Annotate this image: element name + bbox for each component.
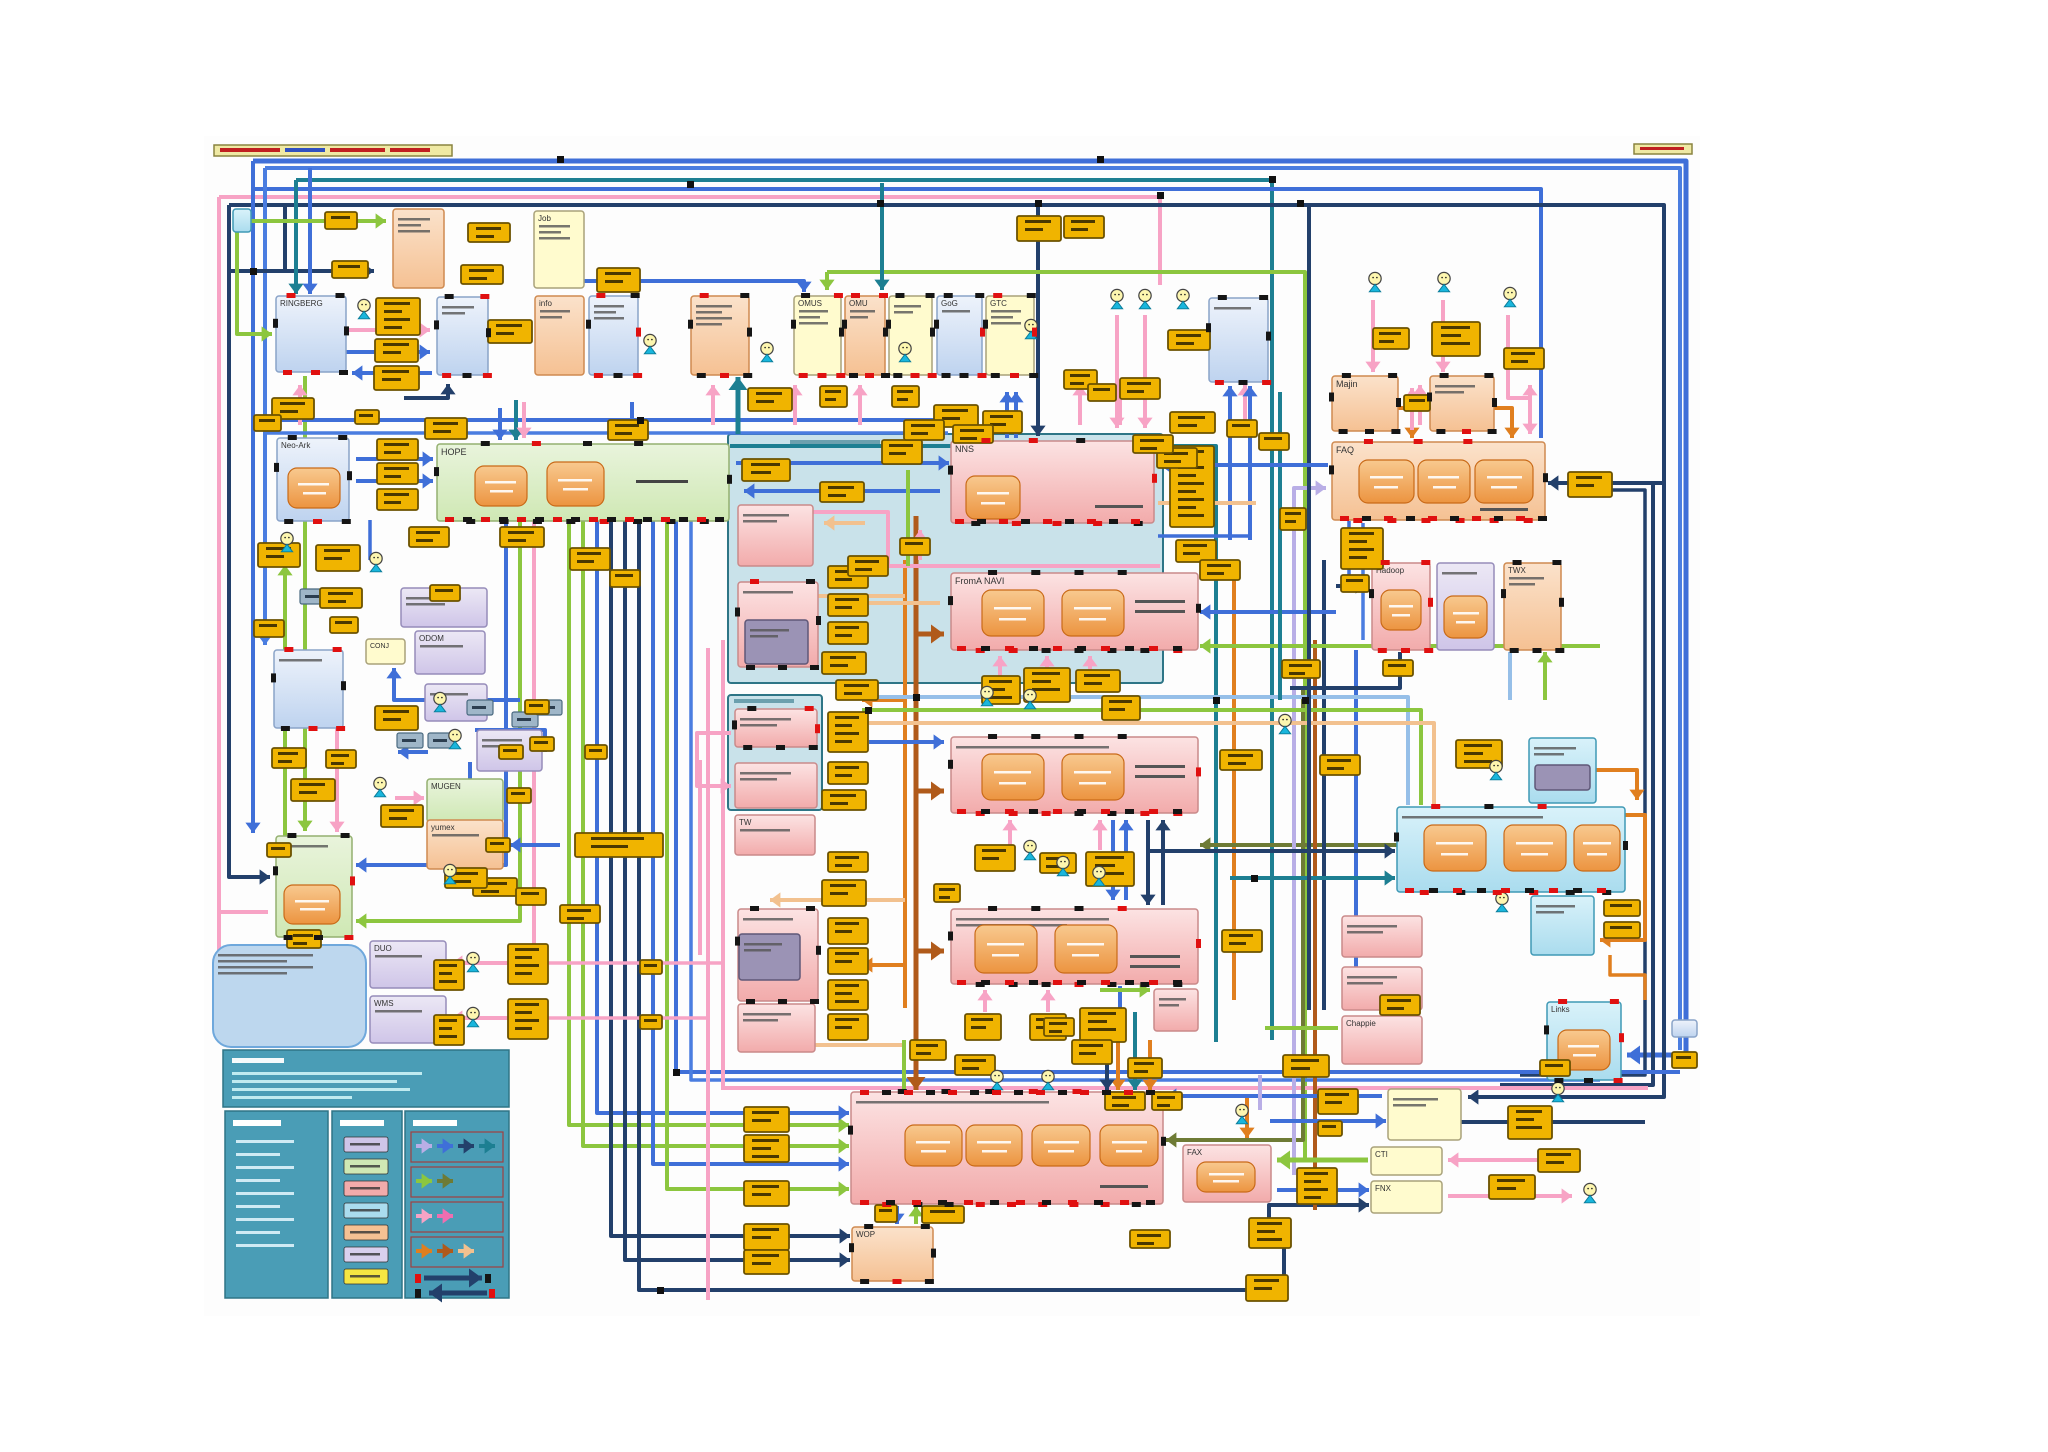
wire pink CTI: [1448, 1158, 1575, 1162]
wire green left source: [250, 219, 386, 223]
label box 1030,1014: [1030, 1014, 1066, 1040]
wire pink person 1117: [1115, 315, 1119, 428]
svg-text:FAX: FAX: [1187, 1148, 1203, 1157]
wire peach cross: [862, 723, 1434, 805]
connector box 467,700: [467, 700, 493, 715]
label box 1318,1089: [1318, 1089, 1358, 1114]
label box 955,1055: [955, 1055, 995, 1075]
wire pink stub 713: [711, 385, 715, 425]
svg-text:Majin: Majin: [1336, 379, 1358, 389]
wire navy inner frame: [1500, 483, 1653, 1085]
label box 1170,412: [1170, 412, 1215, 433]
svg-text:GoG: GoG: [941, 299, 958, 308]
wire orange E2: [1232, 560, 1236, 1000]
wire blue left v2: [263, 168, 267, 645]
wire blue left v4: [308, 168, 312, 294]
label box 982,676: [982, 676, 1020, 704]
connector box 512,712: [512, 712, 538, 727]
box kashichi: [393, 209, 444, 288]
wire pink stub2 985: [983, 990, 987, 1012]
label box 374,366: [374, 366, 419, 390]
box akamai: [889, 296, 932, 375]
label box 975,845: [975, 845, 1015, 871]
box MUGEN: [427, 779, 503, 822]
label box 1040,853: [1040, 853, 1076, 873]
label box 326,750: [326, 750, 356, 768]
label box 1222,930: [1222, 930, 1262, 952]
legend note box: [223, 1050, 509, 1107]
wire peach left h3: [770, 898, 905, 902]
box kikaku preview: [735, 763, 817, 808]
label box 267,843: [267, 843, 291, 857]
box OMUS: [794, 296, 841, 375]
box rikunavi: [1397, 807, 1625, 892]
label box 434,1015: [434, 1015, 464, 1045]
wire navy FAQ arrow: [1548, 481, 1664, 485]
wire navy branch NNS: [1036, 205, 1040, 436]
label box 316,545: [316, 545, 360, 571]
label box 1320,755: [1320, 755, 1360, 775]
wire orange client: [1494, 408, 1512, 438]
person 650,350: [644, 334, 656, 353]
wire navy FNX: [1269, 1205, 1369, 1225]
label box 1540,1060: [1540, 1060, 1570, 1076]
person 1444,288: [1438, 272, 1450, 291]
wire blue hopeL1: [356, 457, 433, 461]
person 767,358: [761, 342, 773, 361]
label box 910,1040: [910, 1040, 946, 1060]
wire peach left h4: [770, 1043, 905, 1047]
wire navy oubo: [1105, 1030, 1109, 1090]
label box 1383,660: [1383, 660, 1413, 676]
box hanteki API: [1342, 967, 1422, 1010]
person 1375,288: [1369, 272, 1381, 291]
wire pink mid v2: [721, 640, 725, 1088]
wire navy cross2: [1161, 820, 1165, 905]
label box 330,617: [330, 617, 358, 633]
label box 820,482: [820, 482, 864, 502]
person 1145,305: [1139, 289, 1151, 308]
label box 254,415: [254, 415, 281, 431]
label box 1102,696: [1102, 696, 1140, 720]
label box 1220,750: [1220, 750, 1262, 770]
wire orange center: [903, 560, 907, 1008]
box riku kigyou: [1531, 896, 1594, 955]
svg-text:HOPE: HOPE: [441, 447, 467, 457]
wire teal left v: [294, 180, 298, 294]
wire pink mid h: [721, 1086, 1648, 1090]
svg-text:NNS: NNS: [955, 444, 974, 454]
label box 570,548: [570, 548, 610, 570]
wire green cross: [862, 710, 1421, 805]
wire green mo in: [356, 521, 520, 921]
box keisaiDB: [691, 296, 749, 375]
wire navy hadoop2: [1290, 652, 1400, 688]
label box 1133,435: [1133, 435, 1173, 453]
wire pink stub2 920: [918, 530, 922, 560]
person 1031,335: [1025, 319, 1037, 338]
label box 1604,900: [1604, 900, 1640, 916]
person 1510,303: [1504, 287, 1516, 306]
label box 445,868: [445, 868, 487, 888]
box TWX: [1504, 563, 1561, 650]
wire blue rikuopu: [1166, 1094, 1382, 1098]
label box 486,838: [486, 838, 510, 852]
wire blue rk2: [352, 371, 432, 375]
wire peach left h1: [760, 594, 905, 598]
wire green mid v2: [583, 521, 849, 1146]
wire orange riku loop: [1600, 815, 1645, 940]
box gf source: [233, 209, 251, 232]
wire pink stub 1120: [1118, 385, 1122, 425]
wire pink rk: [346, 328, 430, 332]
wire green oubo: [902, 1040, 906, 1090]
label box 744,1135: [744, 1135, 789, 1162]
svg-text:TWX: TWX: [1508, 566, 1526, 575]
box CONJ: [366, 639, 405, 664]
wire teal rikunavi: [1230, 876, 1395, 880]
box townwork: [951, 737, 1198, 813]
label box 1080,1008: [1080, 1008, 1126, 1042]
box RINGBERG: [276, 296, 346, 372]
wire navy rikuopu3: [1461, 1120, 1645, 1124]
svg-text:info: info: [539, 299, 552, 308]
box unyou inner: [745, 620, 808, 664]
label box 1489,1175: [1489, 1175, 1535, 1199]
svg-text:FNX: FNX: [1375, 1184, 1392, 1193]
wire teal E1b: [1278, 392, 1282, 700]
wire brown arrow hata: [916, 949, 944, 954]
label box 828,566: [828, 566, 868, 588]
box FAQ: [1332, 442, 1545, 520]
label box 640,1015: [640, 1015, 662, 1029]
wire pink stub 1350: [1348, 385, 1352, 425]
person 905,358: [899, 342, 911, 361]
label box 828,980: [828, 980, 868, 1010]
wire orange riku loop2: [1610, 955, 1645, 1000]
label box 953,425: [953, 425, 993, 443]
wire blue hopetop2: [630, 402, 634, 438]
svg-text:WMS: WMS: [374, 999, 394, 1008]
label box 1508,1106: [1508, 1106, 1552, 1139]
title bar top-left: [214, 145, 452, 156]
label box 983,411: [983, 411, 1022, 433]
svg-text:TW: TW: [739, 818, 752, 827]
person 1183,305: [1177, 289, 1189, 308]
label box 828,622: [828, 622, 868, 644]
svg-text:WOP: WOP: [856, 1230, 875, 1239]
person 380,793: [374, 777, 386, 796]
wire blue th1: [1111, 820, 1115, 900]
label box 1157,448: [1157, 448, 1197, 468]
connector box 536,700: [536, 700, 562, 715]
wire pink mid v1: [706, 648, 710, 1300]
label box 822,790: [822, 790, 866, 810]
wire blue cross3: [1200, 610, 1336, 614]
wire green nns v: [906, 470, 910, 566]
label box 1076,670: [1076, 670, 1120, 692]
label box 610,570: [610, 570, 640, 587]
wire orange oubo1: [1116, 1040, 1120, 1090]
label box 1152,1092: [1152, 1092, 1182, 1110]
label box 822,880: [822, 880, 866, 906]
label box 1404,395: [1404, 395, 1430, 411]
label box 836,680: [836, 680, 878, 700]
label box 828,918: [828, 918, 868, 944]
label box 1341,528: [1341, 528, 1383, 569]
box erena: [589, 296, 638, 375]
svg-text:MUGEN: MUGEN: [431, 782, 461, 791]
wire teal oubo: [1133, 1012, 1137, 1090]
legend rule box: [225, 1111, 328, 1298]
svg-text:FAQ: FAQ: [1336, 445, 1354, 455]
box CTI: [1371, 1147, 1442, 1175]
label box 608,420: [608, 420, 648, 440]
label box 828,948: [828, 948, 868, 974]
wire green CTI: [1277, 1158, 1368, 1163]
box client kanri: [1430, 376, 1494, 431]
label box 1064,216: [1064, 216, 1104, 238]
wire navy mid v6: [639, 521, 1284, 1290]
label box 377,463: [377, 463, 418, 484]
box rikuH inner: [1535, 765, 1590, 790]
svg-text:CTI: CTI: [1375, 1150, 1388, 1159]
wire teal DB down: [736, 377, 741, 434]
wire navy cross1: [1146, 820, 1150, 905]
wire blue nnsr2: [1158, 534, 1250, 538]
person 1242,1120: [1236, 1104, 1248, 1123]
wire navy rikunavi: [1150, 849, 1395, 853]
wire blue mid v7: [653, 521, 849, 1164]
label box 1283,1055: [1283, 1055, 1329, 1077]
person 1030,705: [1024, 689, 1036, 708]
box jobeee: [534, 211, 584, 288]
box FromA NAVI: [951, 573, 1198, 650]
wire blue utsubo1: [1228, 386, 1232, 540]
wire orange oubo2: [1148, 1040, 1152, 1090]
label box 882,440: [882, 440, 922, 464]
wire orange majin: [1398, 408, 1412, 438]
wire navy hadoop: [1336, 584, 1366, 588]
wire pink stub 1530: [1528, 385, 1532, 425]
wire pink duo2: [548, 961, 723, 965]
wire orange arrow R: [862, 698, 905, 702]
wire blue mid v3: [597, 521, 849, 1113]
wire pink duo: [452, 961, 508, 965]
wire navy mid v5: [625, 521, 850, 1260]
label box 1538,1149: [1538, 1149, 1580, 1172]
wire blue faqleft: [1160, 463, 1328, 467]
label box 1176,540: [1176, 540, 1216, 562]
svg-text:DUO: DUO: [374, 944, 392, 953]
wire navy row271: [231, 269, 374, 273]
box rikuH kanri: [1529, 738, 1596, 803]
wire pink FNX: [1448, 1194, 1572, 1198]
wire green mid v8: [667, 521, 849, 1189]
wire olive E3: [1166, 690, 1303, 1140]
label box 934,405: [934, 405, 978, 427]
label box 1318,1121: [1318, 1121, 1342, 1136]
label box 473,878: [473, 878, 517, 896]
wire pink stub 300: [298, 385, 302, 425]
wire pink stub2 1047: [1045, 656, 1049, 670]
label box 258,543: [258, 543, 300, 567]
wire navy mid v4: [611, 521, 850, 1236]
label box 560,905: [560, 905, 600, 923]
wire green mid v1: [569, 521, 849, 1125]
wire pink wms2: [548, 1016, 708, 1020]
box chappie: [1342, 1016, 1422, 1064]
box udopon: [1437, 563, 1494, 650]
person 1285,730: [1279, 714, 1291, 733]
wire green arrow OMUS: [825, 272, 829, 290]
wire orange arrow R2: [862, 963, 905, 967]
label box 1168,330: [1168, 330, 1210, 350]
wire blue E7: [1354, 650, 1358, 1005]
box API speech: [213, 945, 366, 1047]
label box 320,588: [320, 588, 362, 608]
wire blue townwork: [869, 740, 944, 744]
box hata API: [1154, 989, 1198, 1031]
person 1117,305: [1111, 289, 1123, 308]
label box 461,265: [461, 265, 503, 284]
connector box 428,733: [428, 733, 454, 748]
label box 332,261: [332, 261, 368, 278]
label box 744,1250: [744, 1250, 789, 1274]
wire pink stub 1245: [1243, 385, 1247, 425]
label box 272,398: [272, 398, 314, 419]
box gtc: [986, 296, 1034, 375]
label box 1130,1230: [1130, 1230, 1170, 1248]
label box 828,762: [828, 762, 868, 784]
box ODOM: [415, 631, 485, 674]
wire blue mid v9: [676, 521, 1680, 1072]
person 1558,1098: [1552, 1082, 1564, 1101]
wire blue nns out: [744, 489, 940, 493]
wire blue mid v10: [691, 521, 1600, 1080]
wire blue twx: [1508, 652, 1512, 700]
label box 1504,348: [1504, 348, 1544, 369]
label box 381,805: [381, 805, 423, 827]
wire pink hopetop: [522, 402, 526, 438]
wire green twx: [1543, 652, 1547, 700]
wire blue gtc up2: [1014, 392, 1018, 438]
box DUO: [370, 941, 446, 988]
label box 875,1205: [875, 1205, 897, 1222]
box kyatarin: [437, 297, 488, 375]
label box 1200,560: [1200, 560, 1240, 580]
label box 425,418: [425, 418, 467, 439]
wire orange rikuH: [1596, 770, 1637, 800]
box WOP: [852, 1227, 933, 1281]
wire pink stub2 1090: [1088, 656, 1092, 672]
box FNX: [1371, 1181, 1442, 1213]
wire pink top: [219, 197, 1160, 285]
wire pink left: [217, 197, 221, 1035]
wire blue left v1: [251, 161, 255, 833]
label box 355,410: [355, 410, 379, 424]
label box 530,737: [530, 737, 554, 751]
wire brown E5: [1313, 640, 1317, 1210]
box utsubo: [1209, 298, 1268, 382]
wire pink stub 1080: [1078, 385, 1082, 425]
box unyou kanri: [738, 582, 818, 667]
wire blue utsubo2: [1248, 386, 1252, 540]
wire brown arrow FromA: [916, 632, 944, 637]
box oubo: [851, 1092, 1163, 1204]
wire lblue cross: [862, 697, 1408, 805]
legend color box: [332, 1111, 402, 1298]
wire blue E8: [1361, 523, 1365, 640]
box koukoutei: [425, 684, 487, 721]
box HOPE client: [401, 588, 487, 627]
person 440,708: [434, 692, 446, 711]
person 473,1023: [467, 1007, 479, 1026]
label box 640,960: [640, 960, 662, 974]
wire orange fax: [1245, 1098, 1249, 1138]
label box 1432,322: [1432, 322, 1480, 356]
wire green hataapi: [1100, 988, 1150, 992]
svg-text:OMUS: OMUS: [798, 299, 822, 308]
wire blue wop: [895, 1206, 899, 1224]
wire pink sp loop: [697, 733, 731, 786]
label box 828,1014: [828, 1014, 868, 1040]
label box 1105,1092: [1105, 1092, 1145, 1110]
wire green left v3: [303, 376, 307, 831]
box Neo-Ark: [277, 438, 349, 521]
box grey r1: [1672, 1020, 1697, 1037]
label box 1044,1018: [1044, 1018, 1074, 1036]
wire blue faqdown: [1347, 521, 1351, 575]
svg-text:RINGBERG: RINGBERG: [280, 299, 323, 308]
wire pink person 1373: [1371, 300, 1375, 372]
label box 508,944: [508, 944, 548, 984]
person 287,548: [281, 532, 293, 551]
wire pink stub2 1000: [998, 656, 1002, 676]
label box 525,700: [525, 700, 549, 714]
wire pink mid v0: [532, 521, 536, 963]
wire blue jobeee: [584, 281, 804, 292]
person 473,968: [467, 952, 479, 971]
label box 1017,216: [1017, 216, 1061, 241]
box HOPE: [437, 444, 729, 521]
wire pink left branch: [219, 910, 268, 914]
wire brown center: [914, 516, 919, 1090]
label box 1120,378: [1120, 378, 1160, 399]
person 997,1086: [991, 1070, 1003, 1089]
wire teal arrow OMUSUBI: [880, 183, 884, 290]
box chukan server: [477, 730, 542, 771]
wire blue FNX: [1277, 1188, 1369, 1192]
wire navy top: [229, 205, 1664, 1097]
wire blue yumex: [510, 843, 560, 847]
label box 1282,660: [1282, 660, 1320, 678]
box Hadoop: [1372, 563, 1430, 650]
box FAN sanshou: [738, 505, 813, 566]
box goge: [937, 296, 982, 375]
wire blue hope top: [498, 408, 502, 440]
wire blue neoark: [368, 520, 372, 560]
label box 508,999: [508, 999, 548, 1039]
box NNS: [951, 441, 1154, 523]
box MO: [276, 836, 352, 937]
wire navy FAQ lower: [1520, 490, 1645, 1075]
label box 744,1107: [744, 1107, 789, 1132]
wire brown arrow TW: [916, 789, 944, 794]
label box 1249,1218: [1249, 1218, 1291, 1248]
wire pink stub2 1010: [1008, 820, 1012, 845]
box rinta: [274, 650, 343, 728]
